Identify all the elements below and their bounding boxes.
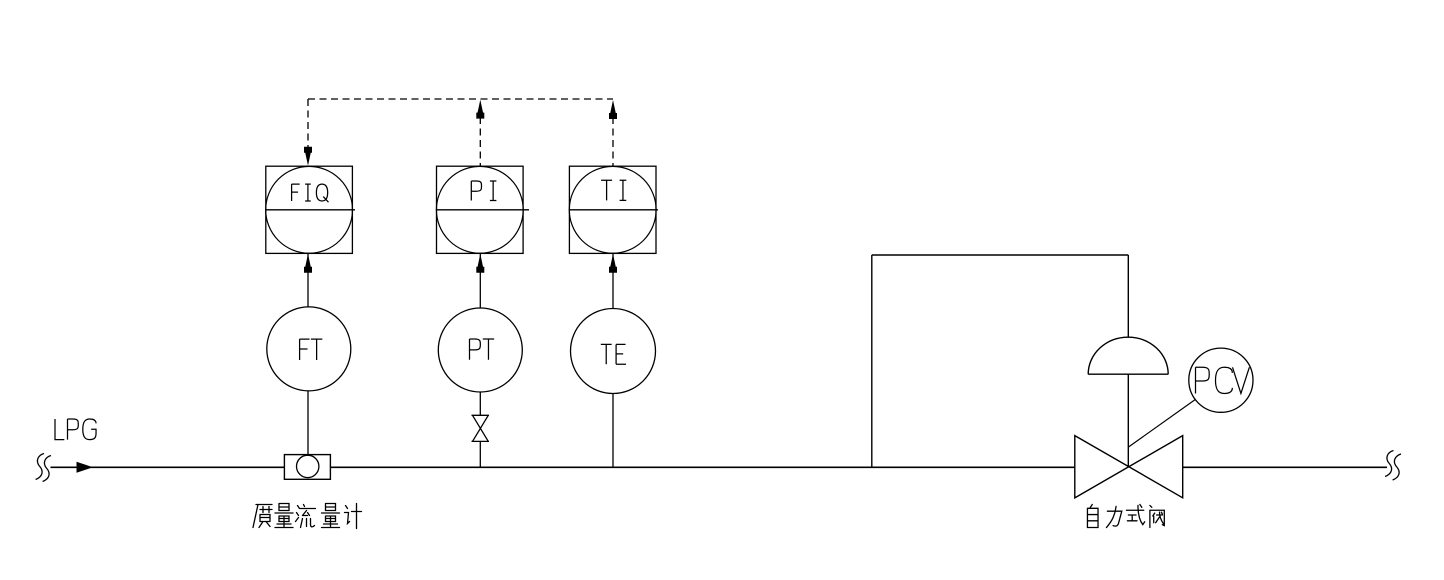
arrow into PI bottom	[476, 254, 484, 273]
dashed signal from TI up	[612, 117, 614, 166]
element TE circle	[571, 309, 656, 394]
arrow into TI bottom	[609, 254, 617, 273]
mass flow meter circle	[297, 455, 319, 477]
instrument TI square	[569, 166, 656, 253]
wire PT to root valve	[479, 392, 481, 415]
instrument TI circle	[569, 166, 656, 253]
instrument FIQ divider line	[266, 209, 355, 211]
sensing line rectangle left edge	[871, 255, 873, 467]
text PT	[470, 339, 481, 360]
leader line to PCV tag	[1129, 400, 1196, 448]
wire TE to pipe	[612, 394, 614, 467]
arrow into FIQ bottom	[304, 254, 312, 273]
instrument FIQ circle	[266, 166, 353, 253]
text TI	[601, 180, 612, 200]
dashed signal line horizontal	[308, 98, 613, 100]
wire FT to FIQ	[307, 254, 309, 308]
wire TE to TI	[612, 254, 614, 309]
tag PCV circle	[1189, 348, 1253, 412]
label 自力式阀 (self-operated valve)	[1087, 504, 1098, 527]
text PI	[471, 181, 481, 201]
instrument FIQ square	[266, 166, 353, 253]
label 质量流量计 (mass flow meter)	[253, 505, 272, 528]
pipe break symbol right	[1385, 451, 1393, 477]
text LPG	[55, 419, 64, 440]
flow arrow on pipe	[77, 462, 94, 473]
valve actuator dome	[1088, 337, 1168, 374]
instrument PI square	[437, 166, 524, 253]
dashed signal drop to FIQ	[307, 99, 309, 150]
wire PT to PI	[479, 254, 481, 309]
text FIQ	[292, 184, 300, 201]
wire FT to flow meter	[307, 391, 309, 456]
mass flow meter body	[284, 455, 330, 480]
wire main LPG pipe: break to flow meter	[51, 466, 285, 468]
pipe break symbol left	[36, 454, 44, 480]
wire root valve to pipe	[479, 441, 481, 467]
text PCV	[1196, 367, 1210, 393]
instrument PI divider line	[437, 209, 530, 211]
arrow down into FIQ top	[304, 147, 312, 166]
dashed signal from PI up	[479, 117, 481, 166]
text TE	[601, 344, 612, 364]
sensing line rectangle top edge	[872, 254, 1129, 256]
sensing line rectangle right edge to actuator	[1127, 255, 1129, 338]
instrument TI divider line	[569, 209, 658, 211]
valve stem	[1127, 374, 1129, 467]
arrow up from PI	[476, 100, 484, 119]
control valve body PCV	[1075, 436, 1183, 498]
wire main LPG pipe: valve to right break	[1183, 466, 1387, 468]
text FT	[300, 339, 310, 360]
arrow up from TI	[609, 100, 617, 119]
transmitter PT circle	[438, 308, 522, 392]
wire main LPG pipe: flow meter to valve	[331, 466, 1075, 468]
instrument PI circle	[436, 166, 523, 253]
transmitter FT circle	[267, 307, 351, 391]
root valve under PT	[472, 415, 490, 441]
